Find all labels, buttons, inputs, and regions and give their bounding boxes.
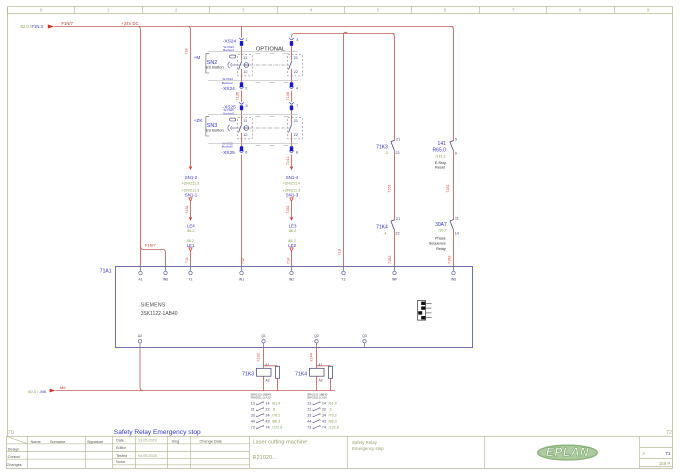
svg-text:712: 712 [241, 258, 245, 264]
connector -XS24 pin 3 [289, 38, 293, 46]
svg-text:/141.1: /141.1 [435, 154, 446, 158]
svg-text:+M: +M [194, 55, 201, 61]
svg-text:3RH2911-1LA20: 3RH2911-1LA20 [251, 396, 271, 400]
pushbutton SN3 with NC contacts 11-12 21-22 [194, 115, 303, 146]
svg-text:34: 34 [265, 414, 269, 418]
contact cross-reference table 71K4 [307, 393, 339, 430]
svg-text:T2: T2 [342, 278, 346, 282]
connector -XS25 pin 8 [289, 146, 293, 152]
svg-text:33: 33 [307, 414, 311, 418]
svg-text:13: 13 [307, 402, 311, 406]
svg-text:+ZR/211.4: +ZR/211.4 [283, 181, 301, 185]
svg-text:.5: .5 [272, 408, 275, 412]
svg-text:A1: A1 [138, 278, 142, 282]
svg-text:ES Button: ES Button [206, 65, 224, 70]
terminals bottom row A2 Q1 Q2 Q3 [138, 334, 367, 347]
svg-text:INF: INF [392, 278, 397, 282]
svg-text:44: 44 [307, 419, 311, 423]
svg-text:Laser cutting machine: Laser cutting machine [253, 440, 308, 446]
svg-text:SN1-2: SN1-2 [185, 175, 198, 180]
svg-text:Changes: Changes [7, 463, 22, 467]
svg-text:5: 5 [246, 104, 248, 108]
svg-text:7131: 7131 [185, 205, 189, 213]
svg-text:73: 73 [251, 425, 255, 429]
node -M6 source arrow 60.3/-M6 [28, 389, 55, 394]
svg-text:-M6: -M6 [39, 389, 47, 394]
svg-text:3: 3 [296, 38, 298, 42]
svg-text:5: 5 [455, 138, 457, 142]
wire contact to XS25-8 [291, 133, 293, 146]
interruption target arrow SN1-1 [189, 198, 192, 202]
svg-text:LE4: LE4 [187, 224, 195, 229]
device box 71A1 outline [116, 267, 473, 348]
wire XS24-3 to contact [291, 46, 293, 61]
svg-text:Date: Date [116, 439, 124, 443]
svg-text:Reset: Reset [435, 165, 446, 169]
DIP switch icon [418, 301, 432, 321]
svg-text:Q2: Q2 [314, 334, 319, 338]
svg-text:71K4: 71K4 [295, 372, 307, 378]
pushbutton SN2 with NC contacts 11-12 21-22 [194, 52, 303, 83]
interruption source arrow LE3 [290, 217, 293, 221]
contact 30A7 11-14 phase sequence relay [429, 217, 459, 251]
page field P. 71 [643, 451, 671, 457]
svg-text:43: 43 [322, 419, 326, 423]
wire XS24-1 to contact [241, 46, 243, 61]
svg-text:21: 21 [294, 119, 298, 123]
svg-text:LE2: LE2 [288, 243, 296, 248]
wire +24V bus [54, 26, 454, 28]
svg-text:/86.3: /86.3 [329, 419, 337, 423]
wire XS24-4 to XS25-7 [291, 91, 293, 102]
svg-text:A1: A1 [318, 363, 322, 367]
svg-text:04.05.2020: 04.05.2020 [138, 454, 157, 458]
wire LE2 to IN2 [291, 252, 293, 267]
svg-text:SIEMENS: SIEMENS [141, 303, 166, 309]
svg-text:Name: Name [31, 440, 41, 444]
svg-text:/122.6: /122.6 [272, 425, 282, 429]
svg-text:22: 22 [395, 151, 399, 155]
svg-text:-XS24: -XS24 [222, 86, 236, 92]
connector -XS25 pin 6 [239, 146, 243, 152]
svg-text:P.: P. [643, 451, 646, 456]
svg-text:43: 43 [265, 419, 269, 423]
svg-text:/61.4: /61.4 [329, 402, 337, 406]
wire T2 drop [344, 32, 348, 266]
svg-text:4: 4 [296, 87, 298, 91]
svg-text:13: 13 [251, 402, 255, 406]
svg-text:3SK1122-1AB40: 3SK1122-1AB40 [141, 311, 178, 317]
svg-text:Buchse6: Buchse6 [222, 145, 233, 149]
svg-text:IN2: IN2 [289, 278, 294, 282]
svg-text:2: 2 [245, 87, 247, 91]
svg-text:71K4: 71K4 [376, 224, 388, 230]
terminals top row A1 IN6 T1 IN1 IN2 T2 INF IN5 [138, 267, 456, 282]
wire XS25-8 down [291, 155, 293, 167]
svg-text:F1N.3: F1N.3 [32, 24, 44, 29]
svg-text:9: 9 [455, 152, 457, 156]
EPLAN logo [538, 445, 598, 460]
interruption source arrow LE4 [189, 217, 192, 221]
svg-text:LE3: LE3 [289, 224, 297, 229]
contact 71K3 21-22 [376, 138, 400, 156]
svg-text:1: 1 [107, 7, 110, 12]
svg-text:7144: 7144 [309, 353, 313, 361]
wire T1 chain lower segment [190, 252, 192, 267]
svg-text:62.0 /: 62.0 / [21, 24, 32, 29]
contact cross-reference table 71K3 [251, 393, 283, 430]
wire XS25-7 to contact [291, 110, 293, 124]
svg-text:Sequence: Sequence [429, 242, 446, 246]
svg-text:21: 21 [396, 138, 400, 142]
wire A2 drop to M6 bus [140, 348, 143, 391]
svg-text:SN1-3: SN1-3 [286, 193, 299, 198]
wire 141 to 30A7 contact [453, 151, 455, 220]
svg-text:7162: 7162 [448, 256, 452, 264]
svg-text:0: 0 [40, 7, 43, 12]
svg-text:14: 14 [322, 402, 326, 406]
svg-text:11: 11 [243, 119, 247, 123]
svg-text:71A1: 71A1 [100, 269, 112, 275]
wire contact to XS24-4 [291, 69, 293, 82]
svg-text:72: 72 [666, 430, 672, 436]
svg-text:14: 14 [455, 231, 459, 235]
node F1N source arrow 62.0/F1N.3 [21, 24, 55, 29]
wire contact to XS25-6 [241, 133, 243, 146]
svg-text:6: 6 [444, 7, 447, 12]
svg-text:7: 7 [296, 104, 298, 108]
svg-text:Tested: Tested [116, 454, 127, 458]
contact 71K4 21-22 [376, 217, 400, 236]
svg-text:7151: 7151 [388, 184, 392, 192]
svg-text:7: 7 [512, 7, 515, 12]
wire bus to connector XS24 pin1 [241, 26, 243, 37]
relay coil 71K4 with suppressor [295, 348, 332, 391]
title block table grid [7, 436, 673, 468]
svg-text:7132: 7132 [256, 353, 260, 361]
svg-text:Safety Relay Emergency stop: Safety Relay Emergency stop [114, 429, 201, 436]
svg-text:Q3: Q3 [362, 334, 367, 338]
connector -XS24 pin 4 [289, 82, 293, 88]
svg-text:Norm: Norm [116, 460, 125, 464]
svg-text:LE1: LE1 [187, 243, 195, 248]
svg-text:SN1-4: SN1-4 [286, 175, 299, 180]
svg-text:Q1: Q1 [261, 334, 266, 338]
svg-text:60.3 /: 60.3 / [28, 389, 39, 394]
svg-text:11: 11 [243, 56, 247, 60]
svg-text:Safety Relay: Safety Relay [352, 440, 378, 445]
svg-text:12: 12 [243, 70, 247, 74]
wire bus corner to 141 contact [451, 27, 454, 142]
svg-text:Design: Design [8, 447, 20, 451]
svg-text:.5: .5 [329, 408, 332, 412]
svg-text:9: 9 [647, 7, 650, 12]
svg-text:+ZR/211.3: +ZR/211.3 [182, 181, 200, 185]
svg-text:44: 44 [251, 419, 255, 423]
wire feed to connector XS24 pin3 [291, 36, 293, 39]
svg-text:3RH2911-1LA20: 3RH2911-1LA20 [307, 396, 327, 400]
svg-text:/70.2: /70.2 [272, 414, 280, 418]
svg-text:-XS24: -XS24 [223, 39, 237, 45]
wire bus feed to 71K3 contact [392, 34, 395, 141]
svg-text:Surname: Surname [50, 440, 65, 444]
svg-text:F1N/7: F1N/7 [62, 21, 74, 26]
svg-text:8: 8 [296, 151, 298, 155]
svg-text:F1N/7: F1N/7 [145, 242, 157, 247]
svg-text:22: 22 [322, 408, 326, 412]
svg-text:8: 8 [579, 7, 582, 12]
wire contact to XS24-2 [241, 69, 243, 82]
svg-text:70: 70 [8, 430, 14, 436]
connector -XS24 pin 1 [239, 38, 243, 46]
svg-text:Editor: Editor [116, 446, 127, 450]
svg-text:22: 22 [265, 408, 269, 412]
svg-text:33: 33 [251, 414, 255, 418]
svg-text:E-Stop: E-Stop [435, 161, 447, 165]
interruption target arrow LE1 [189, 248, 192, 252]
svg-text:141: 141 [438, 141, 447, 147]
svg-text:12: 12 [243, 133, 247, 137]
svg-text:7135: 7135 [235, 92, 239, 100]
svg-text:74: 74 [322, 425, 326, 429]
contact 141 R65.0 E-Stop Reset [433, 138, 457, 170]
svg-text:86.2: 86.2 [187, 229, 194, 233]
svg-text:2: 2 [175, 7, 178, 12]
wire XS25-5 to contact [241, 110, 243, 124]
svg-text:.4: .4 [383, 232, 386, 236]
svg-text:718: 718 [184, 48, 188, 54]
svg-text:-XS25: -XS25 [222, 150, 236, 156]
wire T2 feed horizontal [292, 34, 395, 37]
svg-text:Sing: Sing [172, 439, 180, 443]
wire IN6 branch with corner [141, 247, 166, 267]
interruption target arrow LE2 [290, 248, 293, 252]
svg-text:711: 711 [185, 257, 189, 263]
wire T1 chain upper segment [188, 27, 191, 167]
svg-text:T1: T1 [189, 278, 193, 282]
svg-text:34: 34 [322, 414, 326, 418]
svg-text:R65.0: R65.0 [433, 147, 447, 153]
wire T1 chain middle segment [190, 202, 192, 217]
wire 30A7 contact to IN5 [453, 230, 455, 267]
svg-text:6: 6 [245, 151, 247, 155]
svg-text:Buchse2: Buchse2 [222, 81, 233, 85]
svg-text:30A7: 30A7 [435, 222, 447, 228]
svg-text:IN6: IN6 [163, 278, 168, 282]
svg-text:.3: .3 [385, 151, 388, 155]
column ruler numbers [8, 7, 650, 14]
svg-text:7152: 7152 [388, 256, 392, 264]
svg-text:7161: 7161 [446, 184, 450, 192]
wire SN1-3 to LE3 [291, 202, 293, 217]
svg-text:22: 22 [294, 133, 298, 137]
interruption source arrow SN1-4 [290, 167, 293, 171]
svg-text:EPLAN: EPLAN [546, 445, 589, 459]
svg-text:A1: A1 [265, 363, 269, 367]
svg-text:SN1-1: SN1-1 [185, 193, 198, 198]
title block labels [7, 439, 222, 468]
svg-text:/122.6: /122.6 [329, 425, 339, 429]
svg-text:Control: Control [8, 455, 20, 459]
svg-text:71K3: 71K3 [242, 372, 254, 378]
relay coil 71K3 with suppressor [242, 348, 279, 391]
svg-text:M6: M6 [60, 385, 66, 390]
connector -XS25 pin 5 [239, 102, 243, 110]
svg-text:Emergency stop: Emergency stop [352, 446, 384, 451]
svg-text:+ZK: +ZK [194, 118, 204, 124]
svg-text:1: 1 [246, 38, 248, 42]
svg-text:21: 21 [251, 408, 255, 412]
svg-text:7161: 7161 [286, 205, 290, 213]
svg-text:7145: 7145 [286, 92, 290, 100]
svg-text:R21020...: R21020... [253, 455, 278, 461]
svg-text:IN5: IN5 [451, 278, 456, 282]
wire 71K4 contact to INF [394, 230, 396, 266]
svg-text:22: 22 [395, 232, 399, 236]
wire M6 horizontal bus [56, 390, 336, 392]
svg-text:71K3: 71K3 [376, 145, 388, 151]
svg-text:ES Button: ES Button [206, 128, 224, 133]
svg-text:A2: A2 [138, 334, 142, 338]
connector -XS24 pin 2 [239, 82, 243, 88]
connector -XS25 pin 7 [289, 102, 293, 110]
svg-text:74: 74 [265, 425, 269, 429]
svg-text:IN1: IN1 [239, 278, 244, 282]
svg-text:159 P.: 159 P. [659, 461, 671, 466]
svg-text:/86.3: /86.3 [272, 419, 280, 423]
wire XS25-6 to IN1 [241, 155, 243, 267]
wire 71K3 to 71K4 contact [394, 151, 396, 221]
svg-text:Relay: Relay [436, 247, 446, 251]
svg-text:5: 5 [377, 7, 380, 12]
svg-text:Change Date: Change Date [200, 439, 222, 443]
svg-text:/61.4: /61.4 [272, 402, 280, 406]
svg-text:22: 22 [294, 70, 298, 74]
svg-text:/70.2: /70.2 [329, 414, 337, 418]
svg-text:3: 3 [242, 7, 245, 12]
svg-text:714: 714 [287, 258, 291, 264]
svg-text:21: 21 [294, 56, 298, 60]
svg-text:21: 21 [396, 217, 400, 221]
svg-text:A2: A2 [319, 379, 323, 383]
svg-text:7141: 7141 [286, 157, 290, 165]
svg-text:21: 21 [307, 408, 311, 412]
svg-text:Signature: Signature [87, 440, 103, 444]
interruption source arrow SN1-2 [189, 167, 192, 171]
svg-text:86.2: 86.2 [289, 229, 296, 233]
svg-text:13.05.2010: 13.05.2010 [138, 439, 157, 443]
svg-text:73: 73 [307, 425, 311, 429]
svg-text:713: 713 [338, 249, 342, 255]
svg-text:OPTIONAL: OPTIONAL [256, 46, 286, 52]
svg-text:A2: A2 [266, 379, 270, 383]
svg-text:/30.7: /30.7 [438, 229, 446, 233]
wire XS24-2 to XS25-5 [241, 91, 243, 102]
svg-text:4: 4 [310, 7, 313, 12]
svg-text:71: 71 [665, 451, 671, 457]
svg-text:+24V DC: +24V DC [122, 21, 139, 26]
svg-text:Phase: Phase [435, 236, 446, 240]
svg-text:11: 11 [455, 217, 459, 221]
wire A1 drop [138, 27, 141, 267]
interruption target arrow SN1-3 [290, 198, 293, 202]
svg-text:14: 14 [265, 402, 269, 406]
